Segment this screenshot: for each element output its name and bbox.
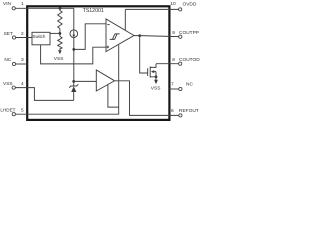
svg-text:LHDET: LHDET (0, 107, 15, 112)
svg-text:NC: NC (4, 57, 11, 63)
svg-text:REFOUT: REFOUT (179, 108, 199, 114)
svg-text:1: 1 (21, 1, 24, 7)
svg-text:OVDD: OVDD (183, 1, 197, 7)
svg-text:10: 10 (170, 1, 176, 7)
svg-text:VSS: VSS (54, 56, 64, 62)
svg-text:9: 9 (172, 30, 175, 36)
svg-text:COUTPP: COUTPP (179, 30, 199, 36)
svg-text:7: 7 (171, 82, 174, 88)
svg-text:VIN: VIN (3, 1, 12, 7)
svg-text:VSS: VSS (151, 86, 161, 92)
svg-text:3: 3 (21, 57, 24, 63)
svg-text:4: 4 (21, 81, 24, 87)
svg-text:5: 5 (21, 107, 24, 113)
svg-text:SET: SET (4, 31, 13, 37)
svg-text:NC: NC (186, 82, 193, 88)
svg-text:6: 6 (171, 108, 174, 114)
svg-text:Switch: Switch (32, 34, 45, 39)
svg-text:8: 8 (172, 57, 175, 63)
svg-text:COUTOD: COUTOD (179, 57, 200, 63)
svg-text:2: 2 (21, 31, 24, 37)
svg-text:VSS: VSS (3, 81, 13, 87)
svg-text:TS12001: TS12001 (83, 8, 104, 14)
